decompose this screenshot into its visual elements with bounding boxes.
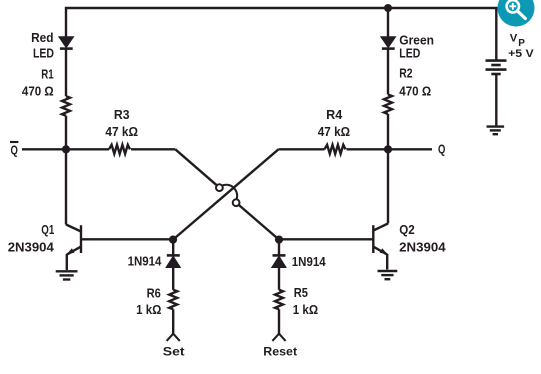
svg-text:470 Ω: 470 Ω (22, 83, 54, 98)
transistor Q2 (279, 224, 388, 270)
wire diagonal Q to Q1 base (continuous) (173, 149, 279, 239)
ground battery (487, 127, 505, 135)
svg-text:470 Ω: 470 Ω (399, 83, 431, 98)
svg-text:LED: LED (399, 45, 420, 60)
svg-text:R5: R5 (294, 285, 308, 300)
battery V_P (486, 61, 507, 126)
wire R2 to Q node (387, 114, 389, 149)
ground Q1 emitter (56, 271, 78, 279)
wire hop arc (222, 185, 237, 199)
svg-text:R6: R6 (147, 285, 161, 300)
svg-text:1 kΩ: 1 kΩ (136, 302, 162, 317)
terminal Set arrow (167, 334, 180, 341)
svg-text:R2: R2 (399, 66, 412, 81)
svg-text:R4: R4 (326, 107, 343, 122)
svg-text:Set: Set (163, 345, 185, 359)
wire top rail (66, 8, 496, 60)
ground Q2 emitter (378, 271, 398, 279)
node hop circle upper (216, 184, 223, 191)
resistor R3 (109, 145, 130, 154)
svg-text:Q: Q (438, 142, 445, 157)
svg-text:2N3904: 2N3904 (8, 240, 55, 255)
svg-text:+5 V: +5 V (508, 48, 534, 60)
svg-text:1 kΩ: 1 kΩ (293, 302, 319, 317)
svg-text:1N914: 1N914 (128, 254, 162, 269)
LED D1 Red (59, 37, 73, 96)
wire Q row left (279, 148, 325, 150)
svg-text:Q2: Q2 (399, 222, 415, 237)
diode D4 1N914 reset (272, 255, 286, 289)
wire diagonal to Q2 base (lower segment) (239, 205, 279, 240)
node top junction (384, 4, 392, 12)
wire Q stub (388, 148, 432, 150)
node Q2 base / Reset junction (275, 236, 283, 244)
resistor R6 (169, 290, 177, 309)
svg-text:Reset: Reset (263, 345, 297, 359)
diode D3 1N914 set (166, 255, 180, 289)
node hop circle lower (233, 199, 240, 206)
svg-text:1N914: 1N914 (292, 254, 326, 269)
icon zoom magnifier (498, 0, 535, 27)
terminal Reset arrow (272, 334, 285, 341)
svg-text:Q1: Q1 (41, 222, 54, 237)
svg-text:Red: Red (31, 30, 53, 45)
wire R3 to diagonal (131, 148, 175, 150)
node Q junction (384, 145, 392, 153)
svg-text:2N3904: 2N3904 (399, 240, 446, 255)
svg-text:R3: R3 (114, 107, 130, 122)
svg-text:47 kΩ: 47 kΩ (318, 124, 351, 139)
resistor R1 (62, 96, 70, 116)
svg-text:R1: R1 (41, 66, 53, 81)
node Qbar junction (62, 145, 70, 153)
wire R6 to Set terminal (172, 309, 174, 334)
wire Set node to diode (172, 240, 174, 255)
svg-text:47 kΩ: 47 kΩ (105, 124, 138, 139)
wire Qbar stub (22, 148, 109, 150)
wire Reset node to diode (278, 240, 280, 255)
svg-text:V: V (510, 32, 518, 44)
wire Q node down to Q2 collector (387, 149, 389, 223)
transistor Q1 (66, 225, 173, 271)
wire Qbar node down to Q1 collector (65, 149, 67, 224)
wire R1 to Qbar node (65, 116, 67, 150)
node Q1 base / Set junction (169, 236, 177, 244)
wire R5 to Reset terminal (278, 309, 280, 334)
svg-text:Q: Q (11, 142, 18, 157)
resistor R5 (275, 290, 283, 309)
svg-text:LED: LED (33, 45, 54, 60)
label Qbar (10, 142, 18, 157)
wire top to green LED (387, 8, 389, 38)
wire R4 to Q node (347, 148, 389, 150)
LED D2 Green (381, 37, 395, 95)
resistor R2 (384, 95, 392, 115)
wire diagonal Qbar to Q2 base (upper segment) (175, 149, 217, 185)
resistor R4 (325, 145, 346, 154)
